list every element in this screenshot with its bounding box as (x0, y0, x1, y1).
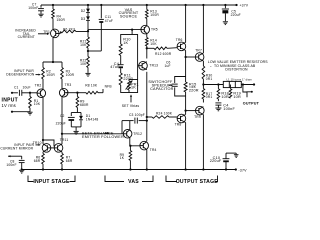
svg-text:C2: C2 (60, 114, 65, 118)
resistor R4 150R (52, 5, 66, 29)
resistor R10 1K (119, 38, 131, 56)
wire input pair tail (43, 61, 62, 63)
node input pair degeneration note (6, 69, 41, 76)
diode D3 (81, 13, 90, 21)
svg-text:100nF: 100nF (28, 6, 38, 10)
resistor R30 0R1 upper emitter resistor (202, 61, 212, 89)
svg-text:10K: 10K (34, 102, 41, 106)
svg-text:220R: 220R (123, 77, 133, 81)
ground at C8 rail end (19, 170, 24, 173)
svg-text:TR11: TR11 (60, 138, 69, 142)
transistor TR11 current mirror right (54, 138, 68, 152)
svg-text:DEGENERATION: DEGENERATION (6, 73, 35, 77)
svg-text:100R: 100R (66, 73, 75, 77)
node increased tail current note (15, 28, 49, 39)
svg-text:SOURCE: SOURCE (120, 15, 138, 19)
resistor R14 10K (146, 34, 158, 59)
node NFB label output (190, 85, 196, 89)
resistor R3 100R degeneration (61, 62, 75, 89)
wire box to bias line (131, 28, 133, 34)
wire bias line to TR5 base (88, 29, 142, 31)
resistor R9 680R feedback shunt (76, 93, 89, 113)
capacitor C5 220uF rail decoupling (222, 5, 241, 25)
wire bottom -37V rail (22, 169, 236, 171)
svg-text:10K: 10K (80, 62, 87, 66)
node bottom rail junction dots (21, 168, 237, 170)
node VAS bracket (105, 176, 153, 186)
svg-text:C1: C1 (14, 86, 19, 90)
transistor TR2 input pair left (35, 84, 46, 98)
svg-text:47uF: 47uF (110, 65, 120, 69)
resistor R19 10R damping (229, 85, 241, 100)
wire TR12 base line from input stage (61, 133, 123, 135)
inductor L1 (223, 77, 252, 87)
svg-text:NFB: NFB (190, 85, 196, 89)
transistor TR9 lower output device (194, 106, 204, 119)
capacitor C8 100nF (6, 155, 24, 169)
resistor R8 10K feedback (77, 83, 103, 94)
svg-text:TR12: TR12 (133, 132, 142, 136)
svg-text:VAS: VAS (128, 179, 139, 185)
wire TR1 collector to tail (52, 38, 54, 63)
svg-text:TR1: TR1 (43, 30, 50, 34)
svg-text:R6 2K2: R6 2K2 (63, 27, 75, 31)
node input return terminal (11, 111, 30, 113)
svg-text:D3: D3 (81, 17, 86, 21)
node low value emitter resistors note (208, 60, 268, 71)
diode D1 1N4148 (79, 113, 98, 127)
transistor TR5 VAS current source (141, 25, 158, 34)
resistor R18 10R zobel (217, 85, 229, 102)
svg-text:68R: 68R (66, 159, 73, 163)
svg-text:1K: 1K (123, 41, 128, 45)
wire TR12 collector stub (129, 121, 131, 130)
wire bias node (87, 21, 89, 37)
wire TR12 emitter to TR4 base (129, 138, 140, 147)
svg-text:TR13: TR13 (149, 63, 158, 67)
svg-text:220uF: 220uF (56, 121, 66, 125)
wire mirror base tie (42, 139, 55, 148)
node beta-enhance note (82, 131, 124, 138)
svg-text:1V rms: 1V rms (2, 103, 16, 108)
transistor TR13 bias Vbe multiplier (139, 61, 158, 70)
svg-text:R24 100K: R24 100K (156, 111, 173, 115)
svg-text:TR2: TR2 (35, 84, 42, 88)
svg-text:100nF: 100nF (223, 107, 235, 111)
wire TR9 base from driver line (184, 109, 195, 111)
svg-text:1N4148: 1N4148 (86, 118, 99, 122)
transistor TR1 tail current source (43, 29, 59, 38)
svg-text:TR6: TR6 (176, 38, 183, 42)
svg-text:TR5: TR5 (151, 27, 158, 31)
node VAS upper node dot (146, 47, 148, 49)
node VAS current source note (119, 8, 139, 19)
svg-text:R8 10K: R8 10K (85, 83, 98, 87)
svg-text:OUTPUT STAGE: OUTPUT STAGE (176, 179, 219, 185)
wire output line (203, 83, 255, 85)
svg-text:1uF: 1uF (165, 64, 171, 68)
preset PR1 1K (126, 80, 139, 93)
capacitor C3 100pF dominant pole (122, 113, 147, 134)
capacitor C6 1uF switchoff speedup (165, 60, 186, 96)
svg-text:CAPACITOR: CAPACITOR (150, 87, 173, 91)
svg-text:220uF: 220uF (231, 13, 241, 17)
svg-text:0R1: 0R1 (206, 77, 213, 81)
svg-text:220uF: 220uF (210, 159, 222, 163)
svg-text:TR8: TR8 (175, 122, 182, 126)
ground below C2 D1 (71, 127, 81, 134)
resistor R17 0R1 lower emitter resistor (202, 89, 212, 103)
resistor R7 68R mirror (61, 152, 73, 170)
svg-text:L1 10 turns 1" diam: L1 10 turns 1" diam (227, 77, 252, 81)
node output terminal (243, 85, 260, 106)
wire TR8 collector to bottom rail (185, 123, 187, 170)
wire TR9 collector to bottom rail (202, 115, 204, 170)
resistor R24 100K (146, 111, 177, 118)
svg-text:C3 100pF: C3 100pF (129, 113, 145, 117)
ground below R1 (27, 112, 32, 115)
transistor TR3 input pair right (59, 83, 71, 97)
resistor R2 100R degeneration (42, 62, 56, 89)
node top rail junction dots (52, 4, 238, 6)
capacitor C4 100nF zobel (215, 103, 235, 111)
wire top +37V rail (41, 4, 237, 6)
wire TR6 collector to rail (185, 5, 187, 42)
svg-text:100nF: 100nF (6, 163, 16, 167)
svg-text:680R: 680R (80, 103, 89, 107)
svg-text:TR3: TR3 (65, 83, 72, 87)
transistor TR8 lower driver (175, 114, 186, 126)
wire TR2 collector down to mirror (42, 97, 44, 144)
svg-text:CURRENT MIRROR: CURRENT MIRROR (0, 146, 33, 150)
svg-text:-37V: -37V (238, 169, 247, 173)
svg-text:68R: 68R (34, 159, 41, 163)
svg-text:NFB: NFB (105, 84, 113, 88)
svg-text:10K: 10K (80, 43, 87, 47)
resistor R13 100R (146, 5, 160, 25)
resistor R6 68R mirror (34, 152, 45, 170)
node INPUT label (2, 98, 19, 108)
node SET Vbias box (121, 35, 138, 93)
svg-text:150R: 150R (57, 18, 66, 22)
resistor R21 10K (80, 37, 89, 48)
capacitor C10 220uF rail decoupling (210, 153, 239, 169)
node +37V label (240, 4, 249, 8)
wire TR7 collector to rail (202, 5, 204, 53)
resistor R22 10K (80, 57, 89, 68)
node SET Vbias note (122, 94, 140, 108)
wire TR13 base to box (138, 65, 139, 67)
ground below R22 (85, 68, 90, 77)
wire TR3 base feedback node (66, 92, 79, 94)
svg-text:TR4: TR4 (150, 148, 157, 152)
wire TR6 emitter and TR7 base (184, 50, 195, 82)
node -37V label (238, 169, 247, 173)
svg-text:10K: 10K (150, 42, 157, 46)
svg-text:1K: 1K (131, 86, 136, 90)
wire TR3 collector down to mirror (61, 97, 63, 144)
svg-text:R12 600R: R12 600R (155, 52, 172, 56)
node bias mid junction (87, 48, 101, 57)
node OUTPUT STAGE bracket (166, 176, 218, 186)
svg-text:47uF: 47uF (105, 19, 113, 23)
resistor R11 220R (119, 73, 133, 85)
transistor TR7 upper output device (195, 49, 204, 62)
resistor R6 2K2 (56, 27, 88, 33)
node switchoff speedup note (148, 80, 173, 91)
transistor TR4 VAS (140, 141, 157, 152)
resistor R15 220R driver emitter (184, 82, 199, 114)
svg-text:INPUT STAGE: INPUT STAGE (33, 179, 70, 185)
svg-text:SET Vbias: SET Vbias (122, 104, 140, 108)
svg-text:100R: 100R (150, 13, 159, 17)
node input terminal (11, 92, 18, 94)
svg-text:TR9: TR9 (194, 115, 201, 119)
transistor TR6 upper driver (176, 38, 186, 51)
resistor R9 1K (120, 146, 132, 170)
capacitor C11 47uF (99, 5, 113, 51)
svg-text:10R: 10R (221, 95, 229, 99)
svg-text:1K: 1K (120, 156, 125, 160)
capacitor C7 100nF rail decoupling (28, 2, 44, 17)
wire TR4 emitter to bottom rail (146, 150, 148, 170)
svg-text:100R: 100R (46, 73, 55, 77)
resistor R12 600R (147, 47, 178, 56)
capacitor C2 220uF feedback (56, 113, 81, 127)
svg-text:220R: 220R (189, 88, 199, 92)
svg-text:+37V: +37V (240, 4, 249, 8)
wire VAS collector line (146, 72, 148, 142)
resistor R1 10K (29, 93, 41, 112)
diode D2 (81, 5, 90, 13)
svg-text:DISTORTION: DISTORTION (225, 68, 248, 72)
svg-text:10uF: 10uF (23, 86, 31, 90)
svg-text:D2: D2 (81, 9, 86, 13)
node input pair current mirror note (0, 143, 40, 150)
svg-text:CURRENT: CURRENT (18, 35, 35, 39)
node NFB label (103, 84, 112, 92)
svg-text:OUTPUT: OUTPUT (243, 102, 260, 106)
capacitor C1 10uF (14, 86, 37, 96)
transistor TR10 current mirror left (33, 141, 51, 152)
svg-text:0R1: 0R1 (206, 95, 213, 99)
node output rail junction (202, 83, 204, 85)
svg-text:TR7: TR7 (195, 49, 202, 53)
transistor TR12 beta-enhance emitter follower (123, 130, 142, 139)
svg-text:EMITTER FOLLOWER: EMITTER FOLLOWER (82, 135, 124, 139)
node INPUT STAGE bracket (28, 176, 75, 186)
svg-text:10R: 10R (233, 95, 241, 99)
capacitor C4 47uF in bias box (110, 62, 123, 69)
